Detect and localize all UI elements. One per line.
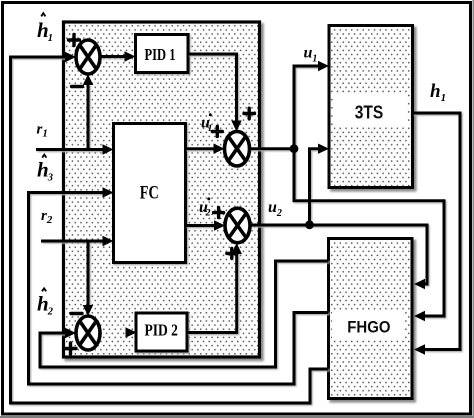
plus sign at M2 left input: [214, 208, 224, 218]
node N1 junction dot: [290, 144, 299, 153]
plus sign at M2 bottom input: [227, 248, 237, 258]
svg-text:2: 2: [205, 208, 211, 218]
summing junction S1: [76, 40, 100, 74]
arrowhead r2 branch down into S2: [83, 305, 93, 316]
plus sign at M1 top input: [244, 108, 255, 119]
arrowhead into S2: [65, 328, 76, 338]
arrowhead PID2 up into M2: [232, 243, 242, 254]
minus sign at S1 bottom input: [72, 85, 83, 88]
frame edge shading bottom: [0, 416, 474, 418]
svg-text:3TS: 3TS: [355, 102, 384, 123]
block FC: [114, 124, 186, 263]
arrowhead S2 output into PID 2: [126, 327, 137, 337]
plus sign at M1 left input: [212, 127, 222, 137]
wire u1 from node N1 down around to FHGO right port 2: [294, 149, 444, 316]
arrowhead u1 into FHGO port 2: [414, 311, 425, 321]
arrowhead r2 into FC: [103, 236, 114, 246]
arrowhead u2* into M2: [214, 220, 225, 230]
wire PID 2 to summing junction M2: [187, 252, 237, 333]
arrowhead r1 branch up into S1: [83, 74, 93, 85]
plus sign at S2 left input: [65, 343, 76, 354]
arrowhead PID1 down into M1: [231, 121, 241, 132]
wire r1 branch up to summing junction S1: [87, 84, 90, 150]
wire S1 to PID 1: [100, 55, 126, 58]
wire r2 input to FC: [41, 240, 104, 243]
block 3TS: [329, 26, 413, 188]
node N2 junction dot: [305, 220, 314, 229]
minus sign at S2 top input: [71, 312, 82, 315]
svg-text:PID 2: PID 2: [144, 321, 178, 340]
wire h3hat feedback: FHGO left port 2 to FC input: [29, 193, 329, 385]
wire FC output u2* to M2: [186, 224, 216, 227]
block PID 1: [136, 35, 189, 73]
wire h1 output of 3TS down to FHGO right port 3: [413, 113, 461, 350]
controller dotted box: [64, 22, 260, 357]
arrowhead S1 output into PID 1: [125, 51, 136, 61]
svg-text:PID 1: PID 1: [145, 45, 176, 64]
arrowhead h3hat into FC: [103, 187, 114, 197]
block PID 2: [136, 313, 187, 351]
wire r1 input to FC: [36, 148, 104, 151]
svg-text:FC: FC: [140, 183, 159, 204]
wire PID 1 to summing junction M1: [188, 54, 237, 122]
wire h1hat feedback: FHGO left port 3 to summing junction S1: [11, 57, 329, 403]
arrowhead u1* into M1: [214, 144, 225, 154]
wire r2 branch down to summing junction S2: [87, 241, 90, 306]
block FHGO: [329, 239, 413, 399]
svg-text:FHGO: FHGO: [347, 317, 390, 336]
summing junction M2: [225, 208, 250, 243]
wire u1 from node N1 up into 3TS: [294, 66, 319, 149]
svg-text:1: 1: [208, 124, 213, 134]
arrowhead r1 into FC: [103, 144, 114, 154]
wire FC output u1* to M1: [186, 147, 216, 150]
arrowhead into S1: [65, 52, 76, 62]
arrowhead u2 into 3TS: [318, 144, 329, 154]
summing junction S2: [76, 316, 100, 350]
plus sign at S1 left input: [69, 35, 80, 46]
arrowhead u1 into 3TS: [318, 61, 329, 71]
arrowhead h1 into FHGO port 3: [414, 344, 425, 354]
wire h2hat feedback: FHGO left port 1 to summing junction S2: [40, 261, 329, 367]
arrowhead u2 into FHGO port 1: [414, 279, 425, 289]
summing junction M1: [225, 131, 250, 166]
wire u2 branch from node N2 up into 3TS: [310, 149, 320, 225]
wire M1 output to node N1: [250, 147, 295, 150]
wire M2 output u2 to FHGO right port 1: [250, 225, 427, 284]
frame edge shading right: [472, 0, 474, 418]
